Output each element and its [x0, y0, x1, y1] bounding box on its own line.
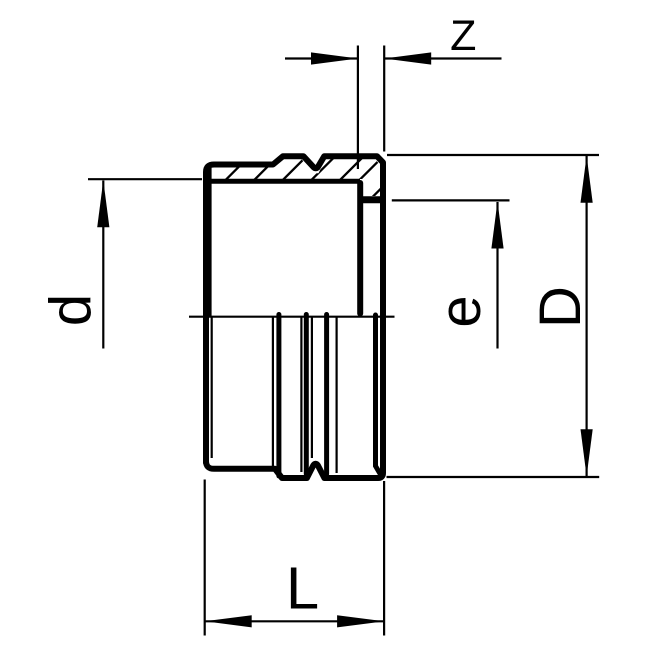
svg-text:L: L [286, 555, 319, 622]
svg-text:e: e [428, 295, 493, 327]
svg-text:d: d [39, 294, 104, 326]
svg-text:Z: Z [450, 12, 476, 60]
svg-text:D: D [528, 286, 593, 328]
